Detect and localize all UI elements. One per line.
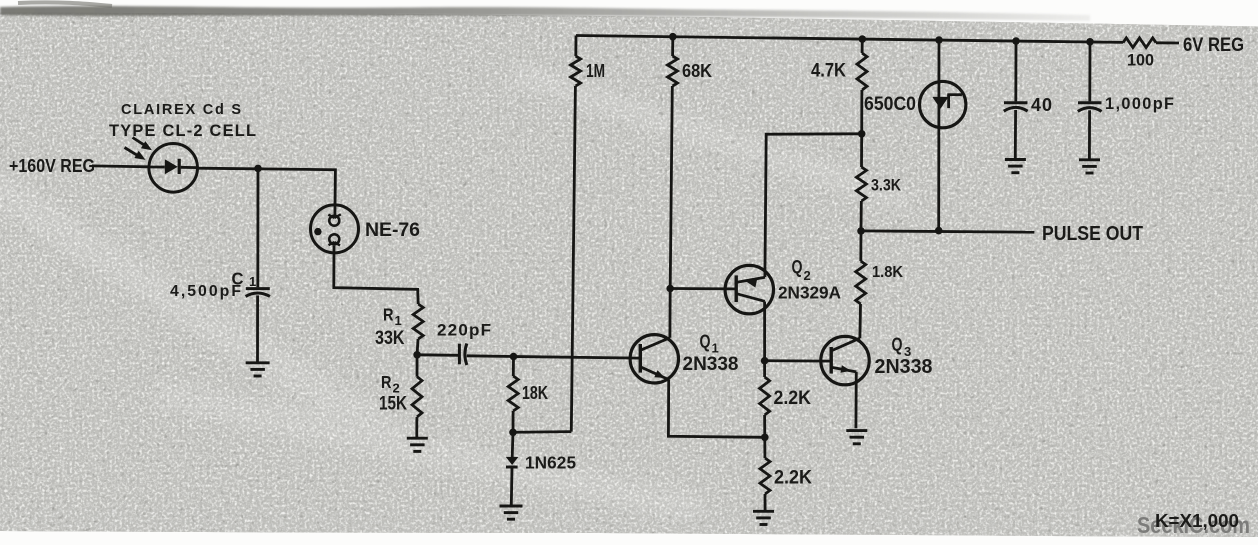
node: 6V REG output: [1183, 34, 1244, 56]
resistor 2.2K (lower): [760, 437, 812, 510]
svg-text:CLAIREX Cd S: CLAIREX Cd S: [121, 102, 241, 118]
svg-text:4.7K: 4.7K: [811, 61, 846, 82]
resistor 3.3K: [856, 134, 901, 231]
svg-text:2: 2: [804, 268, 811, 283]
svg-text:2N329A: 2N329A: [778, 283, 841, 303]
svg-text:650C0: 650C0: [864, 93, 916, 115]
node: photocell output / C1 top: [254, 165, 262, 173]
scan smudge band along top edge: [0, 6, 1090, 21]
ground under R2: [407, 438, 428, 451]
ground under 1N625: [500, 506, 523, 519]
node: 68K/Q2-base junction: [666, 285, 674, 293]
node: rail-68K junction: [669, 33, 677, 41]
node: rail-4.7K junction: [859, 35, 867, 43]
resistor 4.7K: [811, 39, 867, 134]
svg-text:+160V REG: +160V REG: [9, 155, 95, 176]
ground under Q3 emitter: [846, 431, 867, 444]
node: rail-zener junction: [935, 36, 943, 44]
node: 220pF/18K/Q1-base junction: [510, 353, 518, 361]
svg-text:1.8K: 1.8K: [872, 264, 903, 281]
label CLAIREX Cd S: [121, 102, 241, 118]
svg-text:R: R: [383, 305, 394, 325]
svg-text:PULSE OUT: PULSE OUT: [1042, 223, 1143, 245]
svg-text:Q: Q: [892, 335, 903, 355]
svg-text:R: R: [381, 372, 392, 392]
svg-text:K=X1,000: K=X1,000: [1155, 511, 1239, 531]
svg-text:TYPE CL-2 CELL: TYPE CL-2 CELL: [109, 122, 256, 140]
capacitor 220pF: [417, 321, 513, 366]
node: Q2-collector/2.2K/Q3-base junction: [761, 357, 769, 365]
node: rail-40uF junction: [1012, 37, 1020, 45]
svg-text:1: 1: [249, 274, 256, 289]
wire: +160V REG to photocell: [92, 164, 149, 168]
svg-text:2.2K: 2.2K: [774, 467, 812, 489]
node: PULSE OUT label: [1042, 223, 1143, 245]
svg-text:3.3K: 3.3K: [871, 176, 902, 195]
diode 1N625: [506, 432, 577, 505]
wire: PULSE OUT line: [861, 231, 1034, 232]
svg-text:68K: 68K: [682, 60, 713, 81]
wire: 1M bottom to 18K bottom junction: [513, 430, 571, 433]
svg-text:15K: 15K: [379, 394, 407, 415]
wire: Q2 emitter up and over to 4.7K bottom: [765, 134, 862, 277]
resistor R2 15K: [379, 355, 422, 437]
node: PULSE OUT node: [857, 227, 865, 235]
svg-text:1: 1: [395, 313, 402, 328]
wire: node to Q2 base: [670, 287, 736, 290]
ground under 2.2K: [753, 511, 774, 524]
transistor Q3 2N338: [821, 335, 933, 385]
wire: node to Q3 base: [765, 359, 832, 362]
resistor R1 33K: [375, 304, 423, 355]
node: Q1-emitter/2.2K junction: [761, 434, 769, 442]
svg-text:6V REG: 6V REG: [1183, 34, 1244, 56]
wire: base line to Q1: [514, 357, 641, 359]
resistor 100 (series in rail): [1123, 38, 1156, 70]
wire: 68K line down to Q1 collector: [669, 289, 672, 338]
node: 18K/1N625/1M junction: [509, 429, 517, 437]
svg-text:NE-76: NE-76: [365, 219, 420, 241]
svg-text:2N338: 2N338: [683, 353, 739, 375]
resistor 68K: [668, 37, 713, 289]
svg-text:33K: 33K: [375, 328, 405, 349]
wire: photocell to NE-76 corner: [198, 168, 336, 216]
capacitor 40: [1004, 41, 1052, 173]
svg-text:1,000pF: 1,000pF: [1105, 95, 1174, 113]
wire: Q2 collector down to node: [763, 302, 766, 361]
transistor Q1 2N338: [630, 332, 739, 383]
svg-text:4,500pF: 4,500pF: [170, 283, 241, 300]
svg-text:Q: Q: [700, 332, 711, 352]
svg-text:100: 100: [1127, 52, 1154, 70]
svg-text:2N338: 2N338: [875, 356, 933, 378]
svg-text:220pF: 220pF: [437, 321, 491, 340]
svg-text:Q: Q: [792, 257, 803, 277]
svg-text:1M: 1M: [586, 60, 605, 81]
wire: Q1 emitter down to 2.2K junction: [668, 380, 764, 438]
node: 4.7K/3.3K/Q2-emitter junction: [858, 130, 866, 138]
wire: Q3 emitter to ground: [855, 372, 858, 428]
label 4,500pF: [170, 283, 241, 300]
wire: top supply rail: [576, 36, 1123, 43]
node: rail-1,000pF junction: [1086, 38, 1094, 46]
svg-text:18K: 18K: [522, 382, 549, 403]
svg-text:2.2K: 2.2K: [774, 387, 812, 409]
photocell CL-2 (CLAIREX CdS cell): [125, 138, 198, 193]
resistor 1M: [571, 36, 605, 432]
neon lamp NE-76: [311, 205, 421, 253]
label TYPE CL-2 CELL: [109, 122, 256, 140]
node +160V REG input: [9, 155, 95, 176]
transistor Q2 2N329A: [725, 257, 841, 314]
resistor 1.8K: [856, 231, 904, 338]
node: R1/R2/220pF junction: [413, 351, 421, 359]
scan page-edge mark top-left: [18, 2, 112, 6]
label C1: [232, 269, 257, 290]
wire: NE-76 bottom to R1 top: [334, 246, 418, 304]
capacitor 1,000pF: [1078, 42, 1174, 173]
wire: rail to 6V REG terminal: [1156, 41, 1179, 44]
svg-text:40: 40: [1031, 95, 1052, 115]
capacitor C1 4,500pF: [246, 168, 270, 376]
resistor 18K: [508, 357, 548, 433]
zener diode 650C0: [864, 40, 966, 231]
resistor 2.2K (upper): [760, 361, 811, 438]
node: zener/pulse-line junction: [935, 227, 943, 235]
svg-text:1N625: 1N625: [525, 453, 576, 473]
